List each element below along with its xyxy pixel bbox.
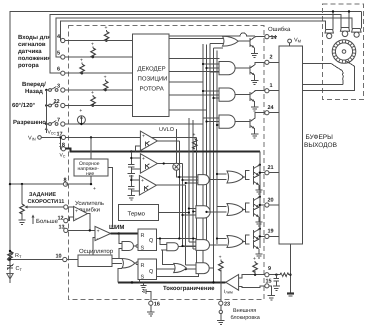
svg-text:+: + xyxy=(253,256,256,262)
comp1 lower input elbow to VC rail xyxy=(135,146,140,152)
svg-text:18: 18 xyxy=(59,142,65,148)
svg-text:БУФЕРЫ: БУФЕРЫ xyxy=(306,134,334,141)
svg-text:17: 17 xyxy=(57,131,63,137)
svg-text:Iлим: Iлим xyxy=(224,289,233,295)
thermo output wire xyxy=(158,212,189,214)
top drive transistor Q2 xyxy=(235,62,265,84)
right gate bus verticals xyxy=(203,43,217,268)
pin 9 xyxy=(265,273,269,277)
svg-text:2: 2 xyxy=(270,55,273,61)
outer picture frame (left+top, doubles as sensor rail) xyxy=(10,12,362,284)
pull-up resistor on pin6 line xyxy=(80,64,85,74)
motor rim ticks xyxy=(333,40,356,63)
comparator input wires xyxy=(239,275,265,288)
latch1 Q row to gates xyxy=(156,238,196,240)
RT timing resistor on left rail xyxy=(8,251,13,261)
wire pin4 to decoder xyxy=(65,40,132,42)
pin 21 xyxy=(265,171,269,175)
reference regulator block xyxy=(74,159,108,176)
comparator outputs to bus xyxy=(156,141,185,185)
motor inner circle xyxy=(335,43,352,60)
pin 23 xyxy=(219,301,223,305)
buffer block bottom sense wire xyxy=(289,244,291,293)
svg-text:21: 21 xyxy=(268,165,274,171)
pin 20 xyxy=(265,203,269,207)
motor phase wire 2 xyxy=(302,83,343,85)
pin 15 ground xyxy=(269,286,271,293)
pin 16 stub and ground xyxy=(150,297,152,309)
svg-text:20: 20 xyxy=(268,197,274,203)
latch2 Q row xyxy=(156,268,196,270)
top drive AND gate C xyxy=(219,115,235,128)
svg-text:Усилитель: Усилитель xyxy=(75,200,104,207)
bottom drive totem pair pin21 xyxy=(254,165,265,194)
rotor position decoder block xyxy=(132,34,169,116)
OR outputs to totem bases xyxy=(242,171,249,245)
osc OR gate xyxy=(122,259,135,269)
rotor position sensor 2 xyxy=(341,25,349,29)
PWM comparator xyxy=(95,226,111,240)
svg-text:+: + xyxy=(193,132,196,138)
sense comparator 3 xyxy=(139,176,156,196)
fault transistor Q14 xyxy=(239,37,265,58)
bottom drive totem pair pin19 xyxy=(254,229,265,258)
OR A inputs xyxy=(210,174,226,180)
pin 15 xyxy=(265,284,269,288)
reference block bottom wire to pin8 row xyxy=(66,176,92,184)
svg-text:12: 12 xyxy=(58,216,64,222)
svg-text:8: 8 xyxy=(64,178,67,184)
reference block top wire to VCC row xyxy=(90,137,92,159)
svg-text:ЗАДАНИЕ: ЗАДАНИЕ xyxy=(29,192,56,198)
svg-text:+: + xyxy=(142,134,145,140)
pot ground xyxy=(18,217,25,224)
svg-text:блокировка: блокировка xyxy=(231,314,261,321)
pin 24 xyxy=(265,111,269,115)
pin 16 xyxy=(149,301,153,305)
sense comparator 1 xyxy=(140,131,157,151)
big AND gate phase A xyxy=(198,175,209,185)
osc AND gate xyxy=(122,242,134,251)
svg-text:положения: положения xyxy=(18,56,51,62)
svg-text:6: 6 xyxy=(57,67,60,73)
svg-text:13: 13 xyxy=(59,224,65,230)
svg-text:10: 10 xyxy=(56,254,62,260)
svg-text:ДЕКОДЕР: ДЕКОДЕР xyxy=(138,66,166,73)
wire left rail to pin 10 xyxy=(10,259,63,261)
pot wiper arrow to pin 11 xyxy=(27,206,64,208)
svg-text:Токоограничение: Токоограничение xyxy=(163,285,215,292)
svg-text:19: 19 xyxy=(268,229,274,235)
svg-text:Ошибка: Ошибка xyxy=(268,26,291,33)
AND B inputs from bus xyxy=(203,91,220,98)
svg-text:Вперед/: Вперед/ xyxy=(22,81,46,88)
motor shaft xyxy=(342,50,346,54)
comparator reference resistor xyxy=(253,263,258,273)
svg-text:R: R xyxy=(141,233,145,239)
pin 12 xyxy=(64,219,68,223)
svg-text:СКОРОСТИ: СКОРОСТИ xyxy=(28,199,59,205)
sensor rail taps on top rail xyxy=(333,12,362,26)
current limit comparator xyxy=(226,275,239,291)
svg-text:Разрешено: Разрешено xyxy=(13,119,46,126)
svg-text:+: + xyxy=(104,75,107,81)
svg-text:Внешняя: Внешняя xyxy=(233,308,256,314)
svg-text:ПОЗИЦИИ: ПОЗИЦИИ xyxy=(138,76,168,83)
wire VIN to pin17 and down to pin18 xyxy=(41,137,61,148)
top drive AND gate A xyxy=(219,62,235,75)
svg-text:+: + xyxy=(219,255,222,261)
pin 8 xyxy=(63,182,67,186)
VCC row pin17 to right xyxy=(66,136,197,138)
brake pull-up resistor xyxy=(219,261,224,271)
sensor wire loop pin4 (innermost) xyxy=(61,21,326,40)
svg-text:VM: VM xyxy=(294,38,301,44)
CT timing capacitor xyxy=(7,260,13,274)
pull-up resistor on pin22 line xyxy=(91,97,96,107)
svg-text:14: 14 xyxy=(271,35,278,41)
svg-text:+: + xyxy=(79,108,82,114)
svg-text:+: + xyxy=(97,229,100,235)
big AND gate phase B xyxy=(196,206,210,218)
internal ground glyph above pin16 xyxy=(142,289,150,297)
pin 7 xyxy=(61,122,65,126)
svg-text:ротора: ротора xyxy=(18,63,39,69)
AND A inputs from bus xyxy=(203,64,220,72)
svg-text:UVLO: UVLO xyxy=(159,127,175,133)
svg-text:S: S xyxy=(141,245,145,251)
pin12 wire to - input xyxy=(68,217,74,221)
analog ground arrow under CT xyxy=(7,274,13,280)
rotor position sensor 1 xyxy=(326,26,334,30)
motor phase wire 3 xyxy=(302,61,354,91)
bus elbows into fault gate xyxy=(210,43,224,48)
current source on pin7 line xyxy=(77,116,85,124)
motor assembly dashed box xyxy=(323,4,364,100)
pin 19 xyxy=(265,234,269,238)
svg-text:ние: ние xyxy=(86,171,95,177)
svg-text:Назад: Назад xyxy=(25,88,43,95)
pin 5 xyxy=(61,55,65,59)
switch pin7 enable xyxy=(46,123,48,125)
sensor wire loop pin5 xyxy=(56,18,352,57)
left gate bus verticals xyxy=(176,118,198,269)
speed pot wire down xyxy=(21,184,23,204)
decoder output wires to gate bus xyxy=(169,39,224,110)
svg-text:+: + xyxy=(75,209,78,215)
output buffers block xyxy=(279,46,303,244)
svg-text:Q: Q xyxy=(149,238,154,244)
svg-text:VIN: VIN xyxy=(28,136,36,142)
pull-up resistor on pin4 line xyxy=(104,32,109,42)
svg-text:5: 5 xyxy=(57,51,60,57)
pin 9 filter capacitor xyxy=(274,275,280,283)
error amplifier U-EA xyxy=(74,206,88,220)
oscillator block xyxy=(78,255,112,266)
sense ground bar xyxy=(287,292,294,294)
pin 10 xyxy=(63,257,67,261)
top drive transistor Q24 xyxy=(235,113,265,138)
osc AND output bubble into latch1 S xyxy=(134,245,137,247)
decoder fault row to pin14 with wire hop xyxy=(169,33,255,36)
svg-text:24: 24 xyxy=(268,105,275,111)
latch1 Q elbow to mid AND xyxy=(160,239,167,251)
svg-text:CT: CT xyxy=(16,266,23,272)
VC row pin18 to totem rail xyxy=(66,149,260,152)
wire latch1 to lower OR top input xyxy=(156,251,198,277)
resistor VCC-VC xyxy=(193,139,198,149)
motor outer circle xyxy=(332,40,356,64)
big AND gate D xyxy=(196,263,209,274)
svg-text:Входы для: Входы для xyxy=(18,34,51,41)
phase gate input stubs xyxy=(179,177,198,269)
svg-text:60°/120°: 60°/120° xyxy=(12,102,36,109)
VC rail down totems xyxy=(259,152,261,249)
speed potentiometer xyxy=(20,204,25,214)
svg-text:+: + xyxy=(91,42,94,48)
bottom drive totem pair pin20 xyxy=(254,197,265,226)
phase OR gate A xyxy=(227,171,244,183)
IC package dashed boundary xyxy=(69,26,265,300)
pin 11 xyxy=(64,205,68,209)
svg-text:+: + xyxy=(91,90,94,96)
small ground on limit row xyxy=(143,282,145,285)
pin 8 row wire from left rail to pin8 xyxy=(10,183,63,185)
OR B inputs xyxy=(207,207,227,212)
mid AND gate xyxy=(167,243,179,251)
svg-text:ВЫХОДОВ: ВЫХОДОВ xyxy=(304,142,337,149)
top drive AND gate B xyxy=(219,88,235,101)
svg-text:11: 11 xyxy=(59,199,65,205)
svg-text:РОТОРА: РОТОРА xyxy=(140,86,164,93)
thermal shutdown block xyxy=(118,205,158,221)
brake switch ground xyxy=(220,314,222,318)
wire pin5 to decoder xyxy=(65,56,132,58)
big AND gate phase C xyxy=(196,240,210,251)
AND C inputs from bus xyxy=(203,118,220,125)
pin 13 xyxy=(64,228,68,232)
svg-text:+: + xyxy=(141,178,144,184)
oscillator outputs xyxy=(112,258,122,263)
lower OR gate xyxy=(174,263,187,272)
label Bolshe with up arrow xyxy=(32,217,34,225)
pull-up resistor on pin3 line xyxy=(103,81,108,91)
pin 1 xyxy=(265,89,269,93)
pin 14 xyxy=(265,35,269,39)
svg-text:сигналов: сигналов xyxy=(18,42,46,48)
RS latch 2 xyxy=(138,259,156,280)
svg-text:+: + xyxy=(80,58,83,64)
brake wire pin23 xyxy=(220,272,222,302)
top drive transistor Q1 xyxy=(235,91,265,111)
AND D output to current limit row xyxy=(210,268,214,282)
RS latch 1 xyxy=(138,229,156,251)
pin 14 stub xyxy=(269,36,277,38)
svg-text:датчика: датчика xyxy=(18,49,42,55)
sense comparator 2 xyxy=(140,154,157,174)
wire pin22 to decoder xyxy=(65,105,132,107)
pin 9 RC filter resistor xyxy=(269,274,280,276)
hooks from current limit row to latches xyxy=(118,268,140,282)
inline current source on bus xyxy=(173,163,180,170)
svg-text:Термо: Термо xyxy=(128,211,146,218)
svg-text:1: 1 xyxy=(270,83,273,89)
pin 6 xyxy=(61,71,65,75)
pin 3 xyxy=(61,88,65,92)
PWM output row to latch1 R (thick) xyxy=(111,233,138,235)
wire pin7 enable row xyxy=(65,123,203,125)
pin wires into buffer block xyxy=(269,62,279,236)
svg-text:Больше: Больше xyxy=(36,218,59,225)
motor phase wire 1 xyxy=(302,64,343,85)
svg-text:16: 16 xyxy=(154,302,160,308)
switch common rail to VCC arrow xyxy=(45,90,47,133)
svg-text:ШИМ: ШИМ xyxy=(109,224,124,231)
svg-text:S: S xyxy=(141,274,145,280)
wire pin3 to decoder xyxy=(65,89,132,91)
svg-text:Осциллятор: Осциллятор xyxy=(79,248,114,255)
fault OR gate xyxy=(223,36,239,46)
pin10 wire into oscillator xyxy=(67,259,78,261)
svg-text:15: 15 xyxy=(266,279,272,285)
comp2 input network with hysteresis capacitor xyxy=(128,152,140,171)
svg-text:9: 9 xyxy=(268,266,271,272)
pin13 feedback wire to EA output xyxy=(68,214,95,231)
svg-text:Q: Q xyxy=(149,269,154,275)
oscillator to PWM - input xyxy=(93,237,95,255)
reference block right output xyxy=(108,168,113,228)
pin 17 VCC xyxy=(61,135,65,139)
pin 18 VC xyxy=(61,147,65,151)
comp3 input network with hysteresis capacitor xyxy=(128,175,139,193)
svg-text:+: + xyxy=(105,25,108,31)
svg-text:R: R xyxy=(141,263,145,269)
current limit output row (thick) xyxy=(118,281,226,283)
switch pin3 fwd/rev xyxy=(46,89,48,91)
svg-text:RT: RT xyxy=(15,253,22,259)
svg-text:+: + xyxy=(93,186,96,192)
svg-text:23: 23 xyxy=(224,302,230,308)
pin11 wire to + input xyxy=(68,206,74,208)
switch pin22 60/120 xyxy=(46,105,48,107)
phase OR gate C xyxy=(227,236,244,248)
brake switch contact xyxy=(220,305,222,310)
rotor position sensor 3 xyxy=(352,25,362,29)
pull-up resistor on pin5 line xyxy=(91,48,96,58)
pin 22 xyxy=(61,103,65,107)
VM terminal xyxy=(288,39,292,43)
pin 4 xyxy=(61,38,65,42)
sensor wire loop pin6 (outermost) xyxy=(50,15,341,73)
phase OR gate B xyxy=(227,204,244,216)
pin 2 xyxy=(265,60,269,64)
OR C inputs xyxy=(210,239,227,246)
wire pin6 to decoder xyxy=(65,72,132,74)
svg-text:+: + xyxy=(142,156,145,162)
